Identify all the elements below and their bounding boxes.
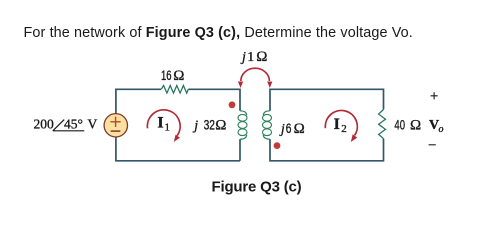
resistor 40ohm zigzag [379,110,386,139]
loop current I2 arrow [325,110,357,135]
mutual coupling arrow j1 [241,68,270,81]
svg-text:Ω: Ω [256,49,267,65]
wire: left loop bottom rail [116,137,240,161]
dot mark left coil [229,101,236,108]
svg-text:j: j [192,118,198,133]
svg-text:Ω: Ω [173,68,184,84]
wire: right loop top rail [270,89,384,111]
svg-text:2: 2 [341,123,347,135]
wire: left coil bottom lead [239,139,241,161]
svg-text:Ω: Ω [294,121,305,137]
wire: right loop bottom rail [270,139,384,161]
svg-text:200: 200 [34,117,55,132]
minus sign for Vo [429,144,436,146]
svg-text:j: j [279,122,285,137]
inductor L2 (right coil) [263,111,272,139]
svg-text:16: 16 [161,68,172,83]
wire: left loop top rail right of resistor to coil top [188,89,240,111]
svg-text:V: V [88,117,98,132]
svg-text:1: 1 [165,122,171,134]
dot mark right coil [274,142,281,149]
voltage source Vs [104,114,127,137]
plus sign for Vo [431,92,438,99]
svg-text:j: j [240,50,246,65]
loop current I1 arrow [147,110,180,136]
inductor L1 (left coil) [238,111,247,139]
resistor 16ohm zigzag [161,86,188,94]
svg-text:40: 40 [394,118,405,133]
svg-text:Ω: Ω [410,118,421,134]
svg-text:1: 1 [247,50,254,65]
wire: left loop left+top rail [116,89,161,113]
svg-text:6: 6 [286,121,292,136]
svg-text:o: o [439,124,444,135]
svg-text:Ω: Ω [215,117,226,133]
svg-text:I: I [157,115,163,132]
svg-text:Figure Q3 (c): Figure Q3 (c) [212,179,302,196]
svg-text:I: I [334,116,340,133]
svg-text:32: 32 [204,117,215,132]
svg-text:For the network of Figure Q3 (: For the network of Figure Q3 (c), Determ… [24,25,413,41]
svg-text:45°: 45° [64,117,83,132]
